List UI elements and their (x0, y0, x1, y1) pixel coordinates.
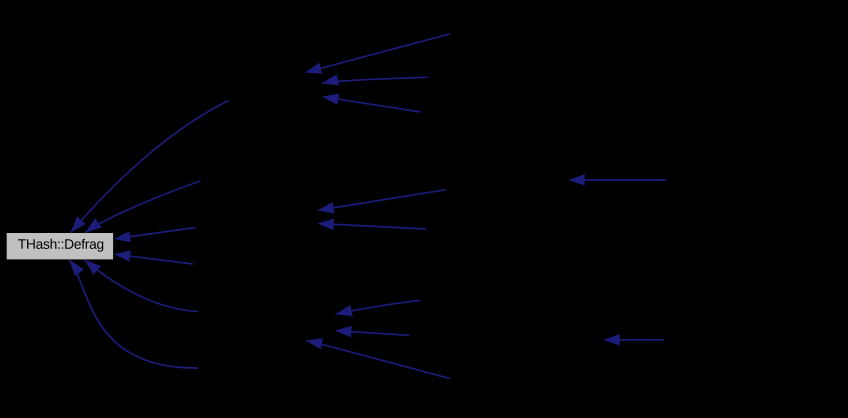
edge -> right column node (top horizontal) (568, 174, 665, 185)
edge -> lower caller node (upper) (335, 300, 420, 316)
edge -> top caller node (lower) (322, 94, 420, 112)
edge -> top caller node (from upper right) (305, 34, 450, 74)
edge -> middle caller node (upper) (317, 190, 446, 214)
edge caller4 -> THash::Defrag (114, 250, 193, 264)
edge -> right column node (bottom horizontal) (603, 334, 663, 345)
edge -> top caller node (middle) (322, 74, 428, 85)
edge caller3 -> THash::Defrag (114, 228, 196, 243)
edge -> middle caller node (lower) (317, 219, 426, 230)
node THash::Defrag (current function, highlighted) (6, 233, 113, 260)
edge -> lower caller node (lower) (335, 326, 410, 337)
edge -> bottom caller node (long) (306, 338, 450, 378)
edge caller5 -> THash::Defrag (bottom curve) (85, 260, 199, 312)
edge caller2 -> THash::Defrag (curve) (85, 181, 200, 233)
edge caller6 -> THash::Defrag (long bottom curve) (69, 260, 198, 368)
edge caller1 -> THash::Defrag (long curve) (71, 101, 229, 233)
